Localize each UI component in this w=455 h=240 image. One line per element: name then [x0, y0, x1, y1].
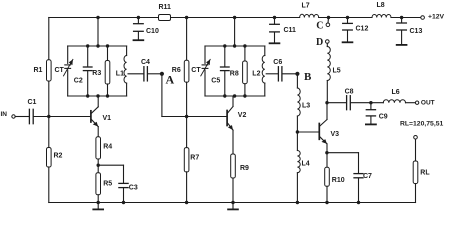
- svg-text:C10: C10: [146, 28, 159, 35]
- svg-text:L6: L6: [392, 89, 400, 96]
- svg-text:B: B: [304, 71, 312, 83]
- svg-text:R9: R9: [240, 165, 249, 172]
- svg-text:L5: L5: [333, 68, 341, 75]
- svg-text:CT: CT: [55, 67, 65, 74]
- svg-text:R10: R10: [332, 177, 345, 184]
- svg-text:R1: R1: [34, 67, 43, 74]
- svg-text:C11: C11: [284, 27, 297, 34]
- svg-text:CT: CT: [191, 67, 201, 74]
- svg-text:R11: R11: [159, 4, 172, 11]
- svg-text:V3: V3: [331, 131, 340, 138]
- svg-text:RL: RL: [420, 170, 430, 177]
- svg-text:L2: L2: [252, 71, 260, 78]
- svg-text:D: D: [316, 37, 323, 48]
- svg-text:R5: R5: [103, 181, 112, 188]
- svg-text:C6: C6: [273, 59, 282, 66]
- svg-text:C5: C5: [211, 77, 220, 84]
- svg-text:V1: V1: [103, 115, 112, 122]
- svg-text:C12: C12: [356, 26, 369, 33]
- svg-text:RL=120,75,51: RL=120,75,51: [400, 121, 443, 128]
- svg-text:R6: R6: [172, 67, 181, 74]
- svg-text:A: A: [166, 73, 175, 87]
- svg-text:C2: C2: [74, 77, 83, 84]
- svg-text:C4: C4: [141, 59, 150, 66]
- svg-text:L4: L4: [302, 160, 310, 167]
- svg-text:+12V: +12V: [428, 13, 445, 20]
- svg-text:R2: R2: [54, 152, 63, 159]
- svg-text:L1: L1: [116, 71, 124, 78]
- svg-text:C7: C7: [363, 173, 372, 180]
- svg-text:R3: R3: [92, 70, 101, 77]
- svg-text:R7: R7: [190, 155, 199, 162]
- svg-text:R4: R4: [103, 144, 112, 151]
- svg-text:C8: C8: [345, 88, 354, 95]
- svg-text:L3: L3: [302, 102, 310, 109]
- svg-text:C3: C3: [129, 184, 138, 191]
- svg-text:L8: L8: [377, 2, 385, 9]
- svg-text:OUT: OUT: [421, 99, 435, 106]
- svg-text:R8: R8: [230, 70, 239, 77]
- svg-text:V2: V2: [238, 112, 247, 119]
- svg-text:L7: L7: [302, 3, 310, 10]
- svg-text:C1: C1: [28, 99, 37, 106]
- svg-text:C: C: [316, 20, 323, 31]
- svg-text:C13: C13: [410, 28, 423, 35]
- svg-text:IN: IN: [1, 111, 8, 118]
- svg-text:C9: C9: [379, 114, 388, 121]
